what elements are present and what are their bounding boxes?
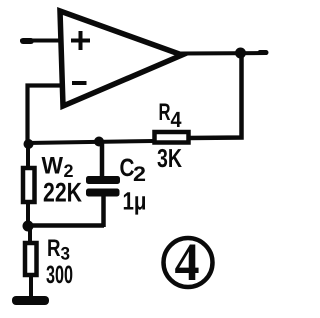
wire non-inverting input bbox=[22, 39, 60, 44]
capacitor C2 bbox=[86, 176, 120, 197]
figure number circle 4 bbox=[164, 232, 213, 292]
op-amp U1 inverting input - symbol bbox=[72, 81, 87, 85]
svg-text:300: 300 bbox=[46, 261, 73, 289]
label C2 bbox=[120, 154, 147, 186]
label R4 bbox=[159, 99, 183, 132]
op-amp U1 non-inverting input + symbol bbox=[71, 31, 90, 50]
wire inverting input down to node A bbox=[28, 86, 61, 147]
wire W2 bottom lead bbox=[26, 202, 30, 226]
svg-text:2: 2 bbox=[133, 163, 146, 186]
wire W2 top lead bbox=[26, 146, 30, 168]
node C junction (C2 top) bbox=[94, 137, 104, 147]
wire R3 bottom lead bbox=[29, 275, 33, 298]
node B junction (W2/R3) bbox=[23, 221, 34, 232]
wire C2 top lead bbox=[100, 142, 105, 178]
label W2 bbox=[42, 153, 74, 182]
svg-text:4: 4 bbox=[175, 232, 200, 292]
wire lower bus W2 to C2 bbox=[27, 223, 104, 228]
op-amp U1 bbox=[60, 11, 182, 106]
wire R3 top lead bbox=[28, 226, 32, 243]
wire output bbox=[180, 53, 266, 54]
label R3 bbox=[47, 235, 70, 264]
svg-text:1μ: 1μ bbox=[123, 188, 147, 216]
node D output junction bbox=[235, 48, 246, 59]
wire C2 bottom lead bbox=[101, 194, 106, 227]
ground bbox=[12, 296, 49, 305]
resistor R3 bbox=[25, 243, 37, 275]
wire upper bus to R4 bbox=[27, 141, 153, 143]
resistor R4 bbox=[155, 132, 189, 143]
svg-text:4: 4 bbox=[171, 107, 183, 132]
svg-text:22K: 22K bbox=[43, 178, 82, 208]
node A junction bbox=[24, 139, 34, 149]
wire R4 right lead up to output bbox=[188, 54, 242, 138]
svg-text:3K: 3K bbox=[157, 143, 182, 173]
potentiometer W2 bbox=[23, 168, 35, 202]
svg-text:R: R bbox=[47, 235, 61, 262]
svg-text:R: R bbox=[159, 99, 171, 126]
svg-text:W: W bbox=[42, 153, 64, 180]
